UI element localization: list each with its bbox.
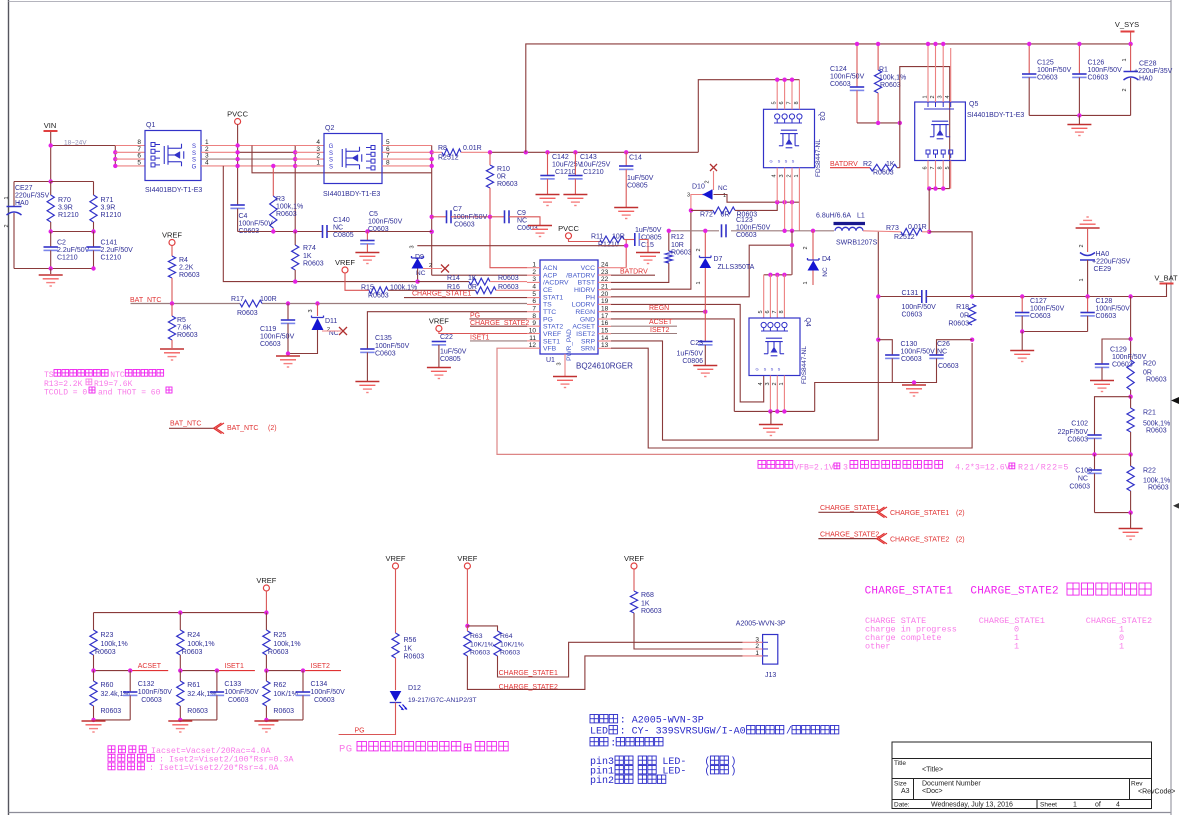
svg-text::: : xyxy=(610,739,616,750)
capacitor C103 NC xyxy=(1094,454,1096,470)
svg-text:100k,1%: 100k,1% xyxy=(1143,478,1170,485)
svg-text:4: 4 xyxy=(772,174,778,177)
wire VIN to Q1 bus xyxy=(51,145,116,147)
ground below Q4 xyxy=(770,411,772,424)
svg-text:5: 5 xyxy=(532,291,536,298)
wire SRP route xyxy=(611,341,878,440)
wire L1 to R73 xyxy=(863,231,901,232)
svg-text:R0603: R0603 xyxy=(498,284,519,291)
capacitor C127 100nF/50V xyxy=(1021,297,1023,313)
svg-text:ACSET: ACSET xyxy=(138,663,162,670)
svg-text:R68: R68 xyxy=(641,592,654,599)
svg-text:pin2: pin2 xyxy=(590,775,614,787)
wire VREF bus bottom left xyxy=(265,591,267,613)
svg-text:100nF/50V: 100nF/50V xyxy=(260,334,295,341)
wire VIN vertical xyxy=(50,132,52,182)
svg-text:other: other xyxy=(865,642,891,652)
svg-text:C133: C133 xyxy=(224,681,241,688)
svg-text:ACN: ACN xyxy=(543,265,557,272)
svg-text:C132: C132 xyxy=(138,681,155,688)
ground below C129 xyxy=(1090,381,1114,392)
svg-text:D10: D10 xyxy=(692,184,705,191)
wire C124-R1-R2 node y=122.9 xyxy=(857,122,900,124)
svg-text:C1210: C1210 xyxy=(101,255,122,262)
wire GND pin17 route xyxy=(611,319,734,412)
ground below C23 xyxy=(693,366,717,377)
svg-text:100k,1%: 100k,1% xyxy=(276,204,303,211)
svg-text:0R: 0R xyxy=(497,174,506,181)
svg-text:FDS8447-NL: FDS8447-NL xyxy=(815,139,822,177)
svg-text:R3: R3 xyxy=(276,196,285,203)
svg-text:/: / xyxy=(786,726,792,738)
svg-text:R1210: R1210 xyxy=(598,242,619,249)
svg-text:10uF/25V: 10uF/25V xyxy=(580,162,611,169)
svg-text:100nF/50V: 100nF/50V xyxy=(902,304,937,311)
svg-text:C0806: C0806 xyxy=(682,358,703,365)
svg-text:ISET1: ISET1 xyxy=(470,334,490,341)
svg-text:C131: C131 xyxy=(902,290,919,297)
svg-text:TS: TS xyxy=(44,371,54,380)
inductor L1 SWRB1207S xyxy=(834,222,866,225)
power flag VREF (R4) xyxy=(169,240,175,246)
svg-text:1uF/50V: 1uF/50V xyxy=(635,227,662,234)
node V_BAT wire xyxy=(878,296,922,298)
svg-text:1uF/50V: 1uF/50V xyxy=(440,349,467,356)
capacitor C15 1uF/50V xyxy=(624,239,635,241)
svg-text:VFB=2.1V: VFB=2.1V xyxy=(794,463,834,472)
wire R70 R71 mid bus xyxy=(51,231,94,233)
svg-text:2: 2 xyxy=(930,95,936,98)
svg-text:C4: C4 xyxy=(239,213,248,220)
ground below R5 xyxy=(160,349,184,360)
svg-text:2: 2 xyxy=(772,382,778,385)
svg-text:100nF/50V: 100nF/50V xyxy=(311,689,346,696)
power flag VREF (R23-R25) xyxy=(263,585,269,591)
wire PH/C123 bus y=230.8 xyxy=(669,230,834,232)
svg-text:R2512: R2512 xyxy=(438,155,459,162)
svg-text:C0603: C0603 xyxy=(1037,75,1058,82)
svg-text:R4: R4 xyxy=(179,257,188,264)
capacitor C7 100nF/50V xyxy=(432,216,447,218)
svg-text:NC: NC xyxy=(718,185,728,192)
svg-text:HIDRV: HIDRV xyxy=(574,287,595,294)
svg-text:C0603: C0603 xyxy=(314,697,335,704)
svg-text:100nF/50V: 100nF/50V xyxy=(1037,67,1072,74)
ground below R22 xyxy=(1130,513,1132,528)
svg-text:ISET1: ISET1 xyxy=(224,663,244,670)
svg-text:R20: R20 xyxy=(1143,361,1156,368)
svg-text:Q1: Q1 xyxy=(146,122,155,129)
capacitor C9 NC xyxy=(490,216,505,218)
svg-text:C0603: C0603 xyxy=(736,232,757,239)
svg-text:100nF/50V: 100nF/50V xyxy=(736,225,771,232)
no-connect X D11 xyxy=(339,327,347,335)
svg-text:1K: 1K xyxy=(303,253,312,260)
wire Q1 right stubs xyxy=(201,145,238,147)
svg-text:): ) xyxy=(730,766,736,778)
resistor R2 1K xyxy=(830,167,870,169)
wire Q4 bottom stubs xyxy=(769,376,771,412)
svg-text:10R: 10R xyxy=(671,242,684,249)
capacitor C140 NC series xyxy=(322,225,324,238)
svg-text:STAT1: STAT1 xyxy=(543,294,563,301)
svg-text:1K: 1K xyxy=(404,646,413,653)
svg-text:SRN: SRN xyxy=(581,346,595,353)
capacitor C102 22pF/50V xyxy=(1087,434,1101,436)
wire Q4 drain bus xyxy=(764,274,792,276)
node C119 top xyxy=(286,301,290,305)
resistor R25 100k 1% xyxy=(265,613,267,630)
resistor R22 100k 1% xyxy=(1130,454,1132,466)
ground below U1 xyxy=(553,377,577,388)
wire R73 to SRN column xyxy=(929,232,972,297)
svg-text:C0603: C0603 xyxy=(454,222,475,229)
ground below R62 xyxy=(254,721,278,732)
power flag VREF (C22) xyxy=(436,326,442,332)
svg-text:R17: R17 xyxy=(231,296,244,303)
svg-text:5: 5 xyxy=(772,101,778,104)
ground below C130/C26 xyxy=(912,380,916,384)
svg-text:SI4401BDY-T1-E3: SI4401BDY-T1-E3 xyxy=(967,112,1024,119)
ground below R60 xyxy=(82,721,106,732)
svg-text:PWR_PAD: PWR_PAD xyxy=(566,329,573,361)
svg-text:0.01R: 0.01R xyxy=(463,145,482,152)
svg-text:R0603: R0603 xyxy=(1146,428,1167,435)
svg-text:S: S xyxy=(192,151,196,157)
svg-text:ACSET: ACSET xyxy=(572,324,595,331)
svg-text:R72: R72 xyxy=(700,212,713,219)
svg-text:R0603: R0603 xyxy=(276,211,297,218)
svg-text:R64: R64 xyxy=(500,633,513,640)
wire R10 to ACN xyxy=(490,188,527,268)
wire U1 right pin stubs xyxy=(598,267,611,269)
wire Q5 bottom stubs xyxy=(927,161,929,189)
svg-text:SI4401BDY-T1-E3: SI4401BDY-T1-E3 xyxy=(145,187,202,194)
capacitor C135 100nF/50V xyxy=(360,348,374,350)
svg-text:Title: Title xyxy=(894,760,906,767)
diode D10 with X xyxy=(710,164,717,171)
svg-text:NC: NC xyxy=(333,225,343,232)
svg-text:C9: C9 xyxy=(517,210,526,217)
svg-text:CE28: CE28 xyxy=(1139,61,1157,68)
wire D9 side to X xyxy=(423,268,442,270)
svg-text:R0603: R0603 xyxy=(368,293,389,300)
svg-text:19-217/G7C-AN1P2/3T: 19-217/G7C-AN1P2/3T xyxy=(408,697,477,704)
svg-text:1: 1 xyxy=(696,281,702,284)
svg-text:R24: R24 xyxy=(187,632,200,639)
svg-text:C126: C126 xyxy=(1088,60,1105,67)
svg-text:S: S xyxy=(192,158,196,164)
wire STAT1 xyxy=(404,297,527,299)
wire ISET1 node xyxy=(180,670,217,672)
svg-text:C0603: C0603 xyxy=(1069,484,1090,491)
svg-text:5: 5 xyxy=(137,159,141,166)
svg-text:SET1: SET1 xyxy=(543,338,560,345)
resistor R17 100R xyxy=(240,300,262,307)
svg-text:U1: U1 xyxy=(546,357,555,364)
svg-text:REGN: REGN xyxy=(649,305,669,312)
transistor Q2 SI4401BDY-T1-E3 xyxy=(324,134,382,184)
svg-text:R74: R74 xyxy=(303,245,316,252)
wire Q1 left stubs xyxy=(115,145,145,147)
svg-text:C0603: C0603 xyxy=(141,697,162,704)
svg-text:VREF: VREF xyxy=(624,554,644,563)
annotation input current formulas xyxy=(108,746,146,753)
resistor R21 500k 1% xyxy=(1130,397,1132,408)
svg-text:CHARGE_STATE1: CHARGE_STATE1 xyxy=(890,510,949,517)
svg-text:C127: C127 xyxy=(1030,298,1047,305)
resistor R12 10R xyxy=(665,251,672,263)
svg-text:8: 8 xyxy=(938,166,944,169)
svg-text:S: S xyxy=(792,159,795,164)
svg-text:ZLLS350TA: ZLLS350TA xyxy=(718,264,755,271)
svg-text:2: 2 xyxy=(787,174,793,177)
svg-text:FDS8447-NL: FDS8447-NL xyxy=(801,346,808,384)
svg-text:22pF/50V: 22pF/50V xyxy=(1058,429,1089,436)
resistor R71 3.9R xyxy=(51,181,94,183)
svg-text:0R: 0R xyxy=(1143,370,1152,377)
svg-text:3: 3 xyxy=(687,193,690,199)
wire R11 node down to VCC xyxy=(625,240,627,268)
wire Q5 bus down to R73 xyxy=(928,189,930,232)
svg-text:R0603: R0603 xyxy=(273,708,294,715)
resistor R24 100k 1% xyxy=(179,613,181,630)
svg-text:Date:: Date: xyxy=(894,802,910,809)
capacitor C2 2.2uF/50V xyxy=(50,232,52,248)
svg-text:100R: 100R xyxy=(260,296,277,303)
svg-text:S: S xyxy=(771,367,774,372)
svg-text:7: 7 xyxy=(772,310,778,313)
svg-text:3.9R: 3.9R xyxy=(101,205,116,212)
wire C9 to ground xyxy=(509,217,540,225)
svg-text:Sheet: Sheet xyxy=(1040,802,1057,809)
svg-text:C123: C123 xyxy=(736,217,753,224)
power flag VREF (R68) xyxy=(631,563,637,569)
svg-text:C23: C23 xyxy=(690,340,703,347)
svg-text:R0603: R0603 xyxy=(177,332,198,339)
svg-text:R0603: R0603 xyxy=(303,261,324,268)
svg-text:100k,1%: 100k,1% xyxy=(879,75,906,82)
svg-text:5: 5 xyxy=(758,310,764,313)
wire Q2 left stubs xyxy=(295,145,324,147)
capacitor C128 100nF/50V xyxy=(1087,297,1089,313)
svg-text:6: 6 xyxy=(923,166,929,169)
resistor R10 0R xyxy=(486,165,493,188)
diode D7 ZLLS350TA xyxy=(704,231,706,257)
svg-text:1: 1 xyxy=(1122,58,1128,61)
svg-text:R0603: R0603 xyxy=(1148,485,1169,492)
svg-text:C26: C26 xyxy=(937,341,950,348)
svg-text:R10: R10 xyxy=(497,166,510,173)
svg-text:C130: C130 xyxy=(901,341,918,348)
wire Q5 source bus xyxy=(928,188,950,190)
svg-text:C140: C140 xyxy=(333,217,350,224)
svg-text:R0603: R0603 xyxy=(404,654,425,661)
svg-text:100nF/50V: 100nF/50V xyxy=(1088,67,1123,74)
wire U1 power pad ground xyxy=(564,354,566,376)
resistor R1 100k 1% xyxy=(877,44,879,70)
svg-text:S: S xyxy=(192,144,196,150)
ground below C143 xyxy=(563,195,587,206)
svg-text:Size: Size xyxy=(894,781,907,788)
svg-text:2: 2 xyxy=(1122,88,1128,91)
wire V_BAT down to divider xyxy=(1130,297,1132,361)
svg-text:R0603: R0603 xyxy=(101,708,122,715)
svg-text:CHARGE_STATE2: CHARGE_STATE2 xyxy=(890,536,949,543)
wire SET1 stub xyxy=(470,340,527,342)
svg-text:VFB: VFB xyxy=(543,346,557,353)
svg-text:R61: R61 xyxy=(187,682,200,689)
svg-text:R0603: R0603 xyxy=(187,708,208,715)
svg-text:PVCC: PVCC xyxy=(227,110,248,119)
svg-text:G: G xyxy=(755,367,758,372)
svg-text:: Iset1=Viset2/20*Rsr=4.0A: : Iset1=Viset2/20*Rsr=4.0A xyxy=(149,763,278,773)
wire vertical bus x=431.7 xyxy=(431,146,433,276)
svg-text:BTST: BTST xyxy=(578,280,595,287)
svg-text:2.2uF/50V: 2.2uF/50V xyxy=(101,247,134,254)
wire Q5 top stubs xyxy=(927,44,929,102)
svg-text:2.2K: 2.2K xyxy=(179,265,194,272)
svg-text:STAT2: STAT2 xyxy=(543,324,563,331)
power flag VREF (R56) xyxy=(393,563,399,569)
svg-text:100nF/50V: 100nF/50V xyxy=(1030,306,1065,313)
svg-text:HA0: HA0 xyxy=(1139,76,1153,83)
svg-text:HA0: HA0 xyxy=(15,200,29,207)
svg-text:R73: R73 xyxy=(886,225,899,232)
resistor R73 0.01R xyxy=(901,228,922,235)
node VFB junctions xyxy=(1092,452,1096,456)
svg-text:ACP: ACP xyxy=(543,272,557,279)
svg-text:CE27: CE27 xyxy=(15,185,33,192)
wire PH bus y=152.3 xyxy=(490,151,698,153)
svg-text:C2: C2 xyxy=(57,240,66,247)
transistor Q3 FDS8447-NL xyxy=(764,109,815,167)
svg-text:C119: C119 xyxy=(260,326,276,333)
resistor R20 0R xyxy=(1127,360,1134,390)
svg-text:3: 3 xyxy=(843,463,848,472)
svg-text:R56: R56 xyxy=(404,637,417,644)
svg-text:CE: CE xyxy=(543,287,553,294)
svg-text:5: 5 xyxy=(945,166,951,169)
svg-text:BATDRV: BATDRV xyxy=(830,161,858,168)
svg-text:0R: 0R xyxy=(721,212,730,219)
wire branch to C102 xyxy=(1095,397,1131,435)
capacitor C125 100nF/50V xyxy=(1028,44,1030,74)
wire ACP vertical xyxy=(432,274,527,276)
svg-text:3: 3 xyxy=(557,362,563,365)
svg-text:100nF/50V: 100nF/50V xyxy=(830,74,865,81)
svg-text:4: 4 xyxy=(532,283,536,290)
svg-text:CHARGE_STATE1: CHARGE_STATE1 xyxy=(865,586,954,598)
svg-text:NC: NC xyxy=(937,349,947,356)
svg-text:C0603: C0603 xyxy=(901,356,922,363)
svg-text:C143: C143 xyxy=(580,154,597,161)
svg-text:BQ24610RGER: BQ24610RGER xyxy=(576,362,633,371)
svg-text:10R: 10R xyxy=(612,234,625,241)
svg-text:VIN: VIN xyxy=(44,121,57,130)
svg-text:1: 1 xyxy=(723,193,726,199)
capacitor C133 100nF/50V xyxy=(216,671,218,692)
svg-text:100k,1%: 100k,1% xyxy=(273,641,300,648)
svg-text:3: 3 xyxy=(410,245,416,248)
svg-text:R1210: R1210 xyxy=(101,212,122,219)
wire PH pin20 route xyxy=(611,245,792,297)
svg-text:R12: R12 xyxy=(671,234,684,241)
svg-text:Q2: Q2 xyxy=(325,125,334,132)
svg-text:S: S xyxy=(329,151,333,157)
capacitor C132 100nF/50V xyxy=(129,671,131,692)
svg-text:C0603: C0603 xyxy=(938,363,959,370)
resistor R72 0R xyxy=(689,208,693,212)
svg-text:(2): (2) xyxy=(956,536,965,543)
svg-text:D11: D11 xyxy=(325,318,337,325)
svg-text:Document Number: Document Number xyxy=(922,781,981,788)
resistor R62 xyxy=(265,671,267,681)
svg-text:1: 1 xyxy=(1073,802,1077,809)
svg-text:1K: 1K xyxy=(886,161,895,168)
wire Q4 top stubs xyxy=(763,275,765,318)
node sense bottom nodes xyxy=(876,338,880,342)
svg-text:C22: C22 xyxy=(440,334,453,341)
capacitor C22 1uF/50V xyxy=(432,341,446,343)
power flag VREF (R63) xyxy=(464,563,470,569)
capacitor C134 100nF/50V xyxy=(302,671,304,692)
capacitor C119 100nF/50V xyxy=(287,304,289,321)
power flag PVCC (R11) xyxy=(566,233,572,239)
resistor R3 100k 1% xyxy=(272,166,274,196)
transistor Q5 SI4401BDY-T1-E3 xyxy=(915,102,966,161)
svg-text:3: 3 xyxy=(938,95,944,98)
svg-text:R71: R71 xyxy=(101,197,114,204)
svg-text:Iacset=Vacset/20Rac=4.0A: Iacset=Vacset/20Rac=4.0A xyxy=(151,746,271,756)
svg-text:C0805: C0805 xyxy=(627,183,648,190)
svg-text:R0603: R0603 xyxy=(498,275,519,282)
svg-text:C0603: C0603 xyxy=(1088,75,1109,82)
svg-text:TCOLD = 0: TCOLD = 0 xyxy=(44,388,87,397)
wire J13 pin stubs xyxy=(743,641,763,643)
svg-text:C141: C141 xyxy=(101,240,118,247)
svg-text:1K: 1K xyxy=(468,275,477,282)
svg-text:2: 2 xyxy=(4,224,10,227)
svg-text:R62: R62 xyxy=(273,682,286,689)
wire PG stub xyxy=(470,318,528,320)
svg-text:and THOT = 60: and THOT = 60 xyxy=(98,388,161,397)
capacitor C131 100nF/50V series xyxy=(921,290,923,303)
ground below C9 xyxy=(528,226,552,237)
ground below C126 xyxy=(1078,115,1080,124)
wire top long bus y=43.9 xyxy=(526,44,1131,152)
svg-text:VREF: VREF xyxy=(543,331,561,338)
svg-text:10K/1%: 10K/1% xyxy=(470,642,494,649)
svg-text:R0603: R0603 xyxy=(873,170,894,177)
svg-text:VREF: VREF xyxy=(457,554,477,563)
svg-text:R21: R21 xyxy=(1143,410,1156,417)
wire SRN route xyxy=(611,343,972,448)
svg-text:CE29: CE29 xyxy=(1094,266,1112,273)
svg-text:1: 1 xyxy=(4,196,10,199)
svg-text:C135: C135 xyxy=(375,335,392,342)
svg-text:V_SYS: V_SYS xyxy=(1115,20,1139,29)
wire vertical bus x=295 xyxy=(294,146,296,232)
node Q3 gate bus xyxy=(775,200,779,204)
svg-text:C0603: C0603 xyxy=(830,81,851,88)
svg-text:1: 1 xyxy=(794,174,800,177)
wire TS net BAT_NTC xyxy=(131,303,241,305)
svg-text:CHARGE_STATE1: CHARGE_STATE1 xyxy=(820,505,879,512)
node R20 bottom xyxy=(1128,395,1132,399)
wire REGN xyxy=(611,311,705,313)
svg-text:1uF/50V: 1uF/50V xyxy=(677,351,704,358)
